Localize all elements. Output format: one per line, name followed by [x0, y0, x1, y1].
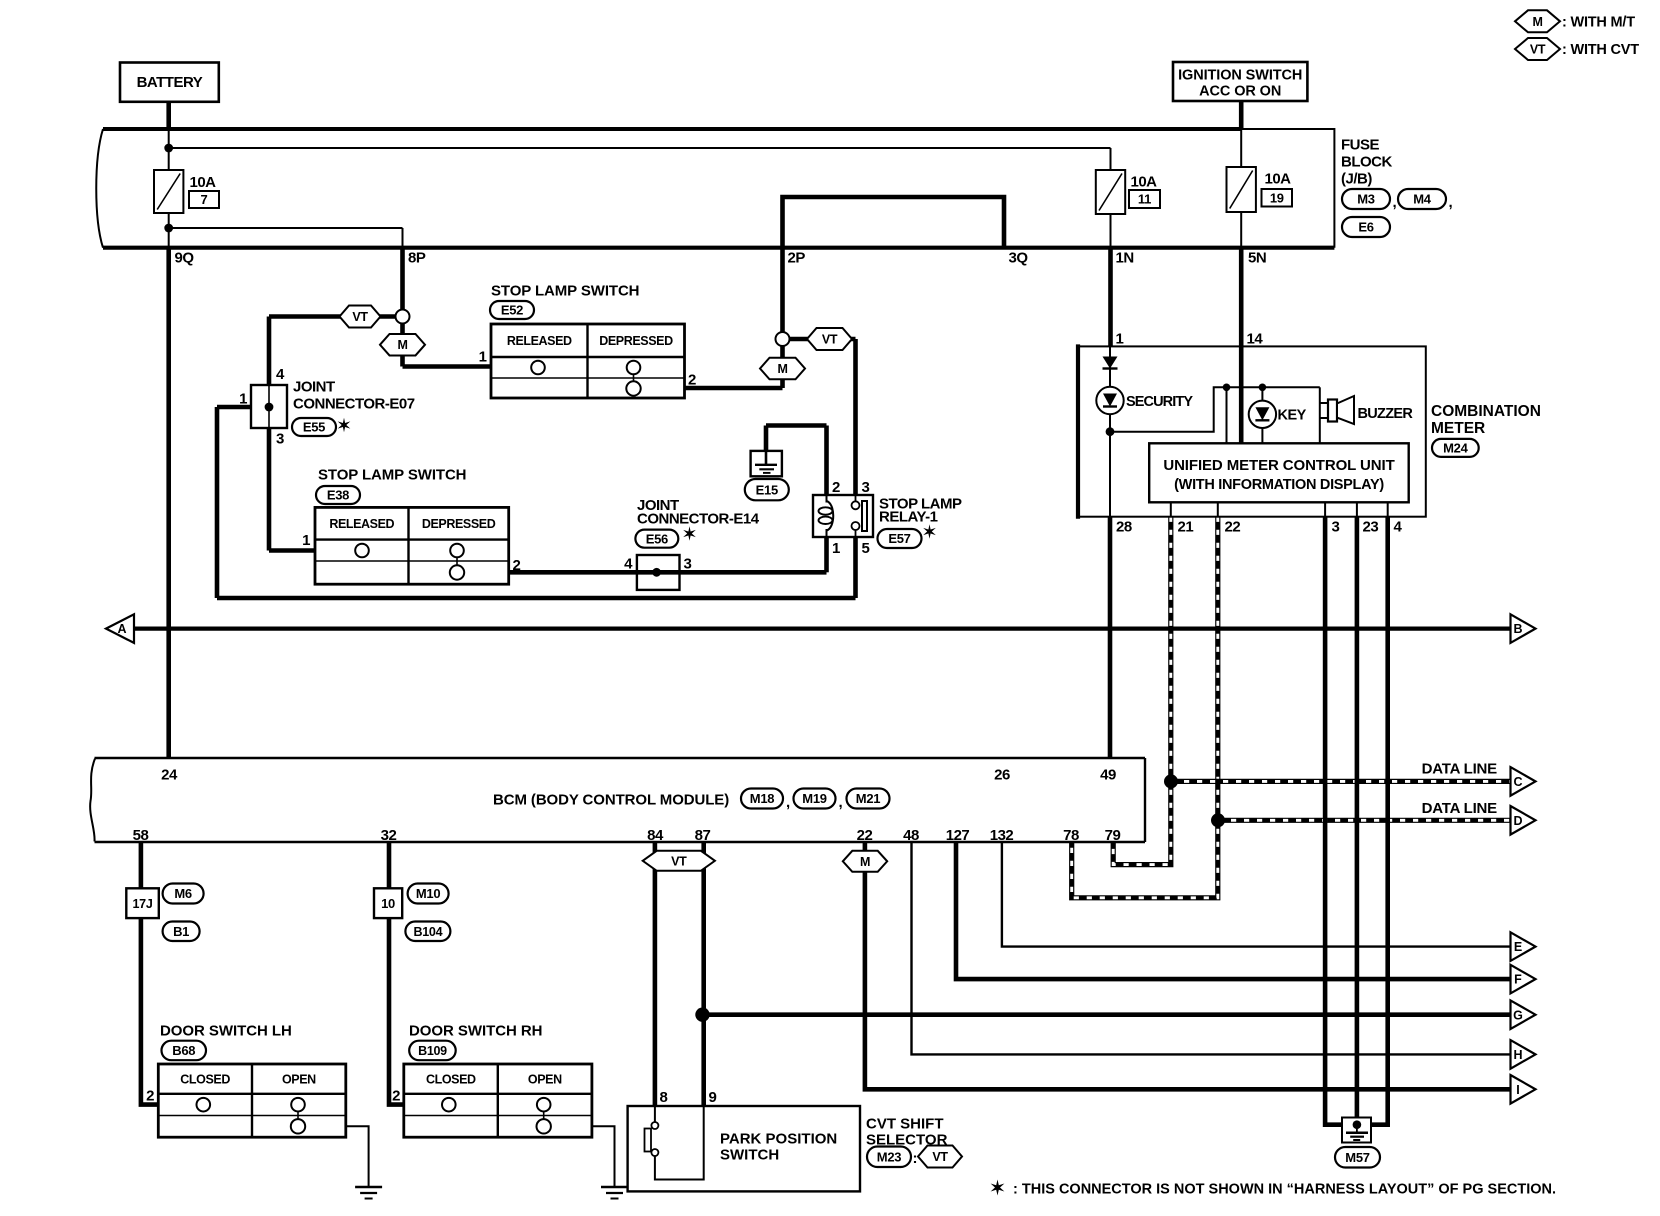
- svg-text:B104: B104: [414, 925, 443, 939]
- svg-text:,: ,: [1393, 194, 1397, 211]
- svg-text:RELEASED: RELEASED: [507, 334, 572, 348]
- svg-text:23: 23: [1363, 519, 1379, 536]
- svg-text:M18: M18: [750, 791, 774, 806]
- svg-text:M: M: [777, 362, 787, 376]
- svg-text:,: ,: [839, 794, 843, 811]
- svg-text:2: 2: [832, 479, 840, 496]
- svg-text:RELAY-1: RELAY-1: [879, 509, 938, 526]
- svg-text:127: 127: [946, 827, 970, 844]
- svg-text:4: 4: [1394, 519, 1403, 536]
- svg-text:VT: VT: [671, 854, 687, 868]
- svg-text:BLOCK: BLOCK: [1341, 154, 1392, 171]
- svg-text:OPEN: OPEN: [282, 1072, 316, 1086]
- svg-text:VT: VT: [822, 333, 838, 347]
- svg-text:78: 78: [1063, 827, 1079, 844]
- svg-text:B68: B68: [172, 1043, 195, 1058]
- svg-text:VT: VT: [352, 310, 368, 324]
- svg-text:E: E: [1514, 940, 1522, 954]
- svg-text:E55: E55: [303, 420, 325, 435]
- svg-text:22: 22: [1225, 519, 1241, 536]
- svg-text:58: 58: [133, 827, 149, 844]
- svg-text:,: ,: [786, 794, 790, 811]
- svg-text:STOP LAMP SWITCH: STOP LAMP SWITCH: [318, 467, 466, 484]
- svg-text:10: 10: [381, 896, 395, 911]
- svg-text:E52: E52: [501, 303, 523, 318]
- svg-text:3: 3: [862, 479, 870, 496]
- svg-text:CVT SHIFT: CVT SHIFT: [866, 1116, 944, 1133]
- svg-text:CONNECTOR-E14: CONNECTOR-E14: [637, 511, 760, 528]
- svg-text:26: 26: [994, 767, 1010, 784]
- svg-text:4: 4: [624, 556, 633, 573]
- svg-text:1: 1: [239, 391, 247, 408]
- svg-text:DEPRESSED: DEPRESSED: [599, 334, 673, 348]
- svg-text:1: 1: [1116, 331, 1124, 348]
- svg-text:10A: 10A: [190, 174, 217, 191]
- svg-text:E6: E6: [1358, 220, 1373, 235]
- svg-text:M57: M57: [1345, 1150, 1369, 1165]
- svg-text:21: 21: [1178, 519, 1194, 536]
- svg-text:CLOSED: CLOSED: [426, 1072, 476, 1086]
- svg-text:3: 3: [276, 431, 284, 448]
- svg-text:COMBINATION: COMBINATION: [1431, 403, 1541, 420]
- svg-text:10A: 10A: [1131, 174, 1158, 191]
- svg-text:SECURITY: SECURITY: [1126, 394, 1193, 410]
- svg-text:7: 7: [201, 192, 208, 207]
- svg-text:2: 2: [688, 372, 696, 389]
- svg-text:79: 79: [1105, 827, 1121, 844]
- svg-text:METER: METER: [1431, 420, 1485, 437]
- svg-text:DATA LINE: DATA LINE: [1422, 761, 1498, 778]
- svg-text:DOOR SWITCH LH: DOOR SWITCH LH: [160, 1023, 292, 1040]
- svg-text:M3: M3: [1357, 192, 1375, 207]
- svg-text:9Q: 9Q: [175, 250, 195, 267]
- svg-text:CLOSED: CLOSED: [180, 1072, 230, 1086]
- svg-text:3Q: 3Q: [1009, 250, 1029, 267]
- svg-text:E57: E57: [888, 531, 910, 546]
- svg-text:87: 87: [695, 827, 711, 844]
- svg-text:DOOR SWITCH RH: DOOR SWITCH RH: [409, 1023, 542, 1040]
- svg-text:DEPRESSED: DEPRESSED: [422, 517, 496, 531]
- svg-text:SWITCH: SWITCH: [720, 1147, 779, 1164]
- svg-text:RELEASED: RELEASED: [329, 517, 394, 531]
- svg-text:14: 14: [1247, 331, 1264, 348]
- svg-text:CONNECTOR-E07: CONNECTOR-E07: [293, 396, 415, 413]
- svg-text:2P: 2P: [788, 250, 806, 267]
- svg-text:19: 19: [1270, 190, 1284, 205]
- svg-text:VT: VT: [932, 1150, 948, 1164]
- svg-text:DATA LINE: DATA LINE: [1422, 800, 1498, 817]
- svg-text:M: M: [1532, 15, 1542, 29]
- svg-text:FUSE: FUSE: [1341, 137, 1380, 154]
- svg-text:JOINT: JOINT: [293, 379, 335, 396]
- svg-text:C: C: [1513, 775, 1522, 789]
- svg-text:49: 49: [1100, 767, 1116, 784]
- svg-text:G: G: [1513, 1008, 1523, 1022]
- svg-text:4: 4: [276, 366, 285, 383]
- svg-text:8P: 8P: [408, 250, 426, 267]
- svg-text:24: 24: [161, 767, 178, 784]
- svg-text:KEY: KEY: [1278, 407, 1307, 423]
- svg-text:OPEN: OPEN: [528, 1072, 562, 1086]
- svg-text:M: M: [860, 855, 870, 869]
- svg-text:8: 8: [660, 1089, 668, 1106]
- svg-text:1N: 1N: [1116, 250, 1134, 267]
- svg-text:5N: 5N: [1248, 250, 1266, 267]
- svg-text:2: 2: [513, 557, 521, 574]
- svg-text:I: I: [1516, 1083, 1519, 1097]
- svg-text:5: 5: [862, 540, 870, 557]
- svg-text:F: F: [1514, 973, 1522, 987]
- svg-text:M21: M21: [856, 791, 880, 806]
- svg-text:M19: M19: [802, 791, 826, 806]
- svg-text:M4: M4: [1413, 192, 1432, 207]
- svg-text:9: 9: [709, 1089, 717, 1106]
- svg-text:BUZZER: BUZZER: [1358, 406, 1414, 422]
- svg-text:ACC OR ON: ACC OR ON: [1199, 84, 1281, 100]
- svg-text:10A: 10A: [1265, 171, 1292, 188]
- svg-text:VT: VT: [1530, 43, 1546, 57]
- svg-text:E38: E38: [327, 488, 349, 503]
- svg-text:17J: 17J: [133, 897, 153, 911]
- svg-text:84: 84: [647, 827, 664, 844]
- svg-text:A: A: [117, 622, 126, 636]
- svg-text:M: M: [397, 338, 407, 352]
- svg-text:BATTERY: BATTERY: [137, 74, 203, 91]
- svg-text:(J/B): (J/B): [1341, 171, 1372, 188]
- svg-text:M23: M23: [877, 1149, 901, 1164]
- svg-text:BCM (BODY CONTROL MODULE): BCM (BODY CONTROL MODULE): [493, 792, 729, 809]
- svg-text:E56: E56: [646, 531, 668, 546]
- svg-text:1: 1: [302, 532, 310, 549]
- svg-text:,: ,: [1449, 194, 1453, 211]
- svg-text:48: 48: [903, 827, 919, 844]
- svg-text:1: 1: [479, 349, 487, 366]
- svg-text:M24: M24: [1443, 441, 1468, 456]
- svg-text:2: 2: [392, 1088, 400, 1105]
- svg-text:IGNITION SWITCH: IGNITION SWITCH: [1178, 68, 1302, 84]
- svg-text:132: 132: [990, 827, 1014, 844]
- svg-text:3: 3: [684, 556, 692, 573]
- svg-text:32: 32: [381, 827, 397, 844]
- svg-text::: :: [913, 1150, 918, 1167]
- svg-text:H: H: [1513, 1048, 1522, 1062]
- svg-text:(WITH INFORMATION DISPLAY): (WITH INFORMATION DISPLAY): [1174, 477, 1384, 493]
- svg-text:: WITH CVT: : WITH CVT: [1562, 42, 1639, 58]
- svg-text:1: 1: [832, 540, 840, 557]
- svg-text:3: 3: [1332, 519, 1340, 536]
- svg-text:B1: B1: [173, 924, 189, 939]
- svg-text:PARK POSITION: PARK POSITION: [720, 1131, 837, 1148]
- svg-text:M10: M10: [416, 886, 440, 901]
- svg-text:28: 28: [1116, 519, 1132, 536]
- svg-text:B: B: [1513, 622, 1522, 636]
- svg-text:D: D: [1513, 814, 1522, 828]
- svg-text:E15: E15: [756, 482, 778, 497]
- svg-text:: THIS CONNECTOR IS NOT SHOWN: : THIS CONNECTOR IS NOT SHOWN IN “HARNES…: [1009, 1182, 1556, 1198]
- svg-text:M6: M6: [174, 886, 192, 901]
- svg-text:2: 2: [146, 1088, 154, 1105]
- svg-text:11: 11: [1138, 192, 1151, 207]
- svg-text:UNIFIED METER CONTROL UNIT: UNIFIED METER CONTROL UNIT: [1163, 457, 1394, 474]
- svg-text:22: 22: [857, 827, 873, 844]
- svg-text:B109: B109: [418, 1044, 447, 1058]
- svg-text:: WITH M/T: : WITH M/T: [1562, 15, 1635, 31]
- svg-text:STOP LAMP SWITCH: STOP LAMP SWITCH: [491, 283, 639, 300]
